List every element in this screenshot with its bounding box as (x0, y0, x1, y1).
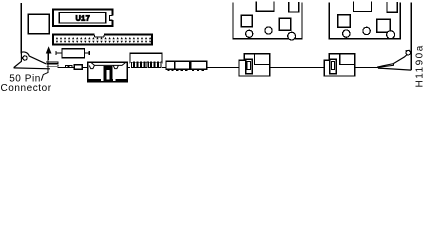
connector jack J2 (324, 54, 355, 76)
connector group 2 narrow tab (387, 2, 397, 12)
bracket hole right (406, 51, 410, 55)
connector center socket G (88, 62, 128, 81)
component block C (191, 61, 207, 69)
component small bump 1 (65, 65, 68, 67)
component group 1 small square (241, 15, 252, 27)
component group 2 large square (377, 19, 391, 32)
connector socket pin marks row 1 (56, 37, 151, 39)
wire board line segment 1 (58, 66, 240, 68)
component axial jumper (56, 49, 89, 58)
component group 2 circle 2 (363, 27, 370, 34)
op-amp U17 notch (109, 15, 113, 20)
component block pins (167, 69, 204, 71)
component square top-left (28, 14, 49, 34)
connector 50-pin socket outline (53, 35, 152, 45)
connector jack J1 (239, 54, 270, 76)
wire label leader (41, 73, 48, 81)
component small bump 2 (69, 65, 72, 67)
svg-text:H1190a: H1190a (415, 44, 425, 87)
component group 2 circle 3 (387, 31, 395, 39)
connector group 1 wide tab (256, 2, 274, 12)
component group 1 circle 1 (246, 30, 253, 37)
connector socket key notch (95, 33, 105, 37)
connector group 1 narrow tab (289, 2, 299, 12)
svg-text:Connector: Connector (1, 83, 52, 94)
op-amp U17 chip inner (59, 13, 106, 23)
op-amp U17 chip outer (53, 10, 112, 26)
bracket right mounting bracket (378, 50, 412, 70)
connector group 2 wide tab (354, 2, 372, 12)
component group 2 circle 1 (343, 30, 350, 37)
component block B (175, 61, 190, 69)
wire board line segment 2 (270, 66, 325, 68)
connector ribbed header (130, 53, 162, 70)
component block A (166, 61, 175, 69)
component black cap (74, 65, 82, 70)
component group 1 large square (279, 18, 290, 30)
wire arrow shaft (47, 53, 49, 73)
component group 2 small square (338, 15, 350, 28)
component group 1 circle 2 (265, 27, 272, 34)
svg-text:U17: U17 (76, 15, 91, 23)
wire board line segment 3 (355, 66, 378, 68)
bracket left mounting bracket (14, 52, 58, 69)
wire left board edge (20, 3, 22, 54)
wire arrow head (46, 46, 52, 53)
connector group 2 box (329, 3, 401, 39)
bracket hole left (23, 56, 27, 60)
connector group 1 box (232, 3, 302, 39)
connector socket pin marks row 2 (56, 41, 151, 43)
component group 1 circle 3 (288, 32, 296, 40)
wire right board edge (410, 3, 412, 71)
